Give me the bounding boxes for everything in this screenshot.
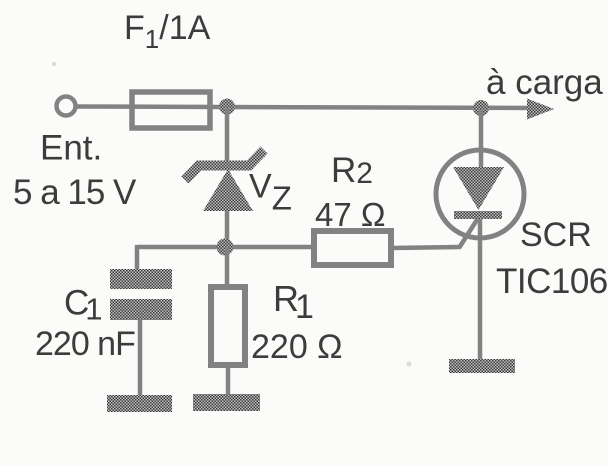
zener diode VZ triangle: [203, 169, 253, 211]
wire gate diagonal: [459, 215, 480, 248]
wire lower rail left: [137, 245, 314, 250]
SCR triangle: [453, 167, 504, 210]
wire R1 top lead: [225, 247, 230, 288]
svg-text:TIC106: TIC106: [496, 262, 608, 301]
svg-text:220 Ω: 220 Ω: [251, 328, 343, 366]
wire SCR cathode lead: [478, 219, 483, 360]
svg-text:Ent.: Ent.: [40, 129, 102, 168]
SCR body circle: [436, 150, 524, 238]
node junction lower: [217, 239, 234, 256]
svg-text:à carga: à carga: [486, 63, 603, 102]
svg-text:47 Ω: 47 Ω: [315, 196, 386, 233]
capacitor C1 bottom plate: [110, 299, 172, 320]
zener diode VZ cathode bar: [185, 150, 264, 180]
ground below C1: [107, 395, 172, 412]
SCR cathode bar: [454, 211, 502, 219]
wire C1 bottom lead: [138, 320, 143, 396]
wire zener top lead: [225, 108, 230, 166]
input terminal: [57, 97, 76, 116]
node junction top-left: [219, 99, 235, 115]
arrow to load: [527, 99, 554, 120]
resistor R2: [314, 231, 391, 265]
wire main top rail: [76, 107, 546, 109]
wire zener bottom lead: [225, 211, 230, 249]
wire C1 top lead: [135, 245, 140, 270]
capacitor C1 top plate: [110, 269, 172, 289]
wire SCR anode lead: [479, 110, 484, 168]
svg-text:5 a 15 V: 5 a 15 V: [13, 173, 137, 212]
svg-text:220 nF: 220 nF: [35, 325, 135, 363]
wire R1 bottom lead: [226, 365, 231, 395]
svg-text:R2: R2: [331, 151, 373, 190]
resistor R1: [211, 287, 245, 365]
ground below R1: [193, 394, 260, 411]
svg-text:SCR: SCR: [520, 216, 592, 254]
wire R2 to gate: [391, 247, 460, 248]
node junction top-right: [473, 100, 489, 116]
ground below SCR: [449, 359, 515, 373]
fuse F1: [132, 92, 210, 128]
